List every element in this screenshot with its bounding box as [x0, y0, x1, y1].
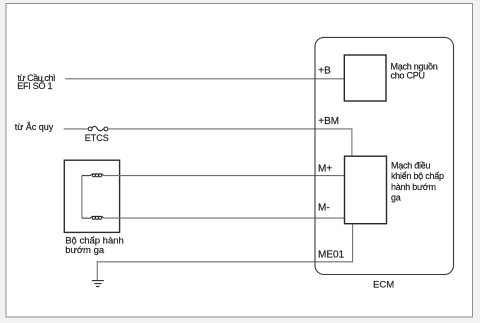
svg-text:ETCS: ETCS	[85, 133, 109, 143]
label Bộ chấp hành bướm ga	[65, 236, 124, 256]
wire M+ to ECM control circuit	[104, 175, 345, 177]
svg-text:ME01: ME01	[318, 249, 345, 260]
svg-text:+BM: +BM	[318, 116, 339, 127]
svg-text:bướm ga: bướm ga	[65, 245, 105, 256]
wire M- to ECM control circuit	[104, 217, 345, 219]
coil M+ (upper motor winding)	[82, 174, 104, 177]
svg-text:hành bướm: hành bướm	[391, 182, 436, 192]
wire +BM left segment (battery to fuse ETCS)	[64, 128, 89, 130]
ground	[92, 281, 104, 287]
wire +BM right segment (fuse to ECM, down into control circuit)	[108, 129, 352, 156]
svg-text:EFI SỐ 1: EFI SỐ 1	[17, 80, 52, 91]
block U1: CPU power supply circuit	[344, 55, 386, 101]
svg-text:cho CPU: cho CPU	[391, 71, 425, 81]
wire ME01 (ground wire to ECM)	[97, 224, 352, 280]
wire: internal vertical joining both coils	[81, 176, 83, 219]
svg-text:ga: ga	[391, 193, 401, 203]
svg-text:ECM: ECM	[373, 279, 394, 290]
throttle actuator box (Bộ chấp hành bướm ga)	[64, 160, 119, 232]
svg-text:từ Ắc quy: từ Ắc quy	[15, 122, 54, 132]
wire +B from fuse to ECM power circuit	[65, 78, 344, 80]
block U2: throttle actuator control circuit	[345, 156, 387, 224]
label Mạch điều khiển bộ chấp hành bướm ga	[391, 160, 444, 202]
svg-text:Mạch điều: Mạch điều	[391, 160, 431, 170]
svg-text:+B: +B	[318, 65, 331, 76]
fuse ETCS	[88, 126, 108, 131]
node: từ Cầu chì EFI SỐ 1 label	[17, 73, 55, 91]
svg-text:M+: M+	[318, 164, 332, 175]
svg-text:M-: M-	[318, 203, 330, 214]
svg-text:khiển bộ chấp: khiển bộ chấp	[391, 171, 444, 181]
coil M- (lower motor winding)	[82, 216, 104, 219]
label Mạch nguồn cho CPU	[391, 62, 438, 81]
ECM enclosure	[315, 37, 454, 274]
